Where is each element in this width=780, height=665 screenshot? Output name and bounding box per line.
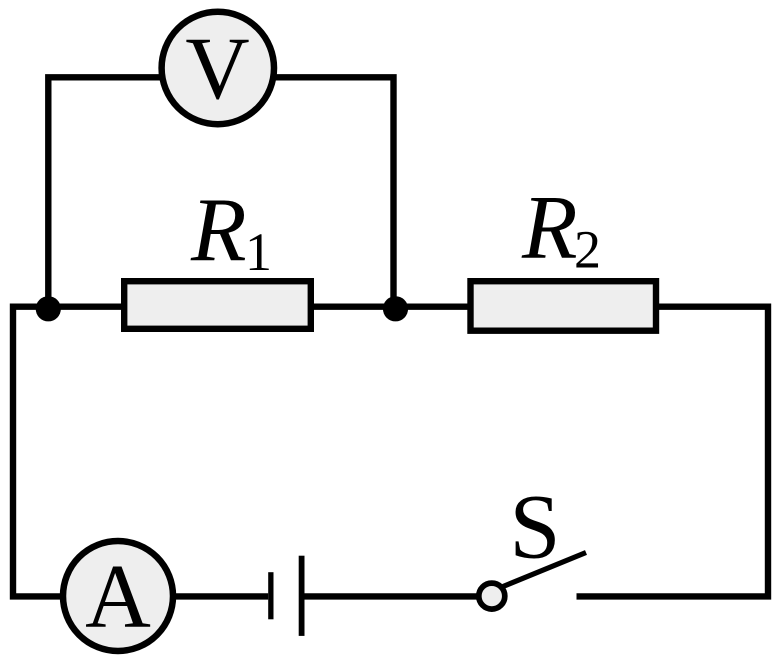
label R2 — [521, 177, 601, 280]
wire: middle row through R1 and R2 — [13, 304, 470, 310]
resistor R2 — [471, 281, 657, 331]
voltmeter U-V — [162, 12, 274, 124]
wire: battery to switch — [304, 593, 478, 599]
wire: voltmeter branch top (left vertical, top horizontal, right vertical) — [48, 77, 393, 306]
wire: bottom ammeter to battery — [176, 593, 268, 599]
svg-text:R: R — [190, 179, 247, 280]
svg-text:1: 1 — [245, 222, 272, 282]
svg-text:A: A — [85, 546, 151, 647]
resistor R1 — [124, 281, 311, 329]
svg-text:V: V — [185, 20, 249, 118]
switch S: pivot circle — [479, 583, 505, 609]
svg-text:2: 2 — [574, 220, 601, 280]
battery (cell): long plate — [299, 556, 305, 636]
wire: R2 to right side, down and along bottom to switch — [577, 307, 769, 597]
svg-text:S: S — [509, 476, 560, 578]
battery (cell): short plate — [268, 572, 273, 619]
node: left junction dot — [36, 296, 61, 321]
label R1 — [190, 179, 272, 282]
wire: left outer side (down to bottom row) — [13, 304, 60, 597]
svg-text:R: R — [521, 177, 578, 278]
switch S: lever arm — [503, 553, 586, 587]
node: right junction dot — [383, 296, 408, 321]
ammeter U-A — [63, 541, 173, 651]
